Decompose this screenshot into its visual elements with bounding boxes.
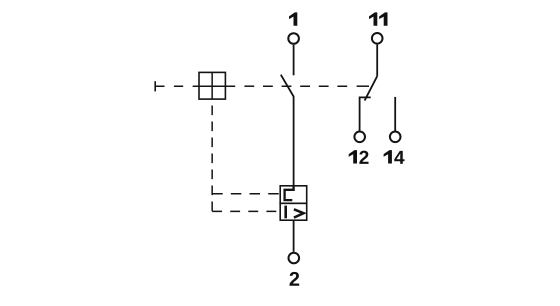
magnetic release greater-than xyxy=(294,209,304,217)
terminal 2 xyxy=(289,253,300,264)
label terminal 11 xyxy=(369,12,377,25)
wire main contact to thermal release xyxy=(293,96,295,186)
wire terminal 1 to main contact xyxy=(293,45,295,76)
aux fixed contact 12 xyxy=(360,97,371,131)
dashed linkage vertical xyxy=(211,99,213,211)
actuator tick left end xyxy=(154,81,156,91)
wire aux contact 14 xyxy=(394,97,396,131)
wire magnetic release to terminal 2 xyxy=(293,220,295,252)
dashed linkage right segment xyxy=(244,85,352,87)
terminal 14 xyxy=(390,132,401,143)
main contact blade xyxy=(281,75,294,97)
label terminal 2 xyxy=(290,272,300,286)
linkage solid segment through actuator box xyxy=(193,85,235,87)
label terminal 12 xyxy=(349,150,357,163)
aux contact blade xyxy=(365,76,378,100)
actuator box vertical center line xyxy=(211,72,213,99)
dashed linkage left segment xyxy=(155,85,193,87)
wire terminal 11 to aux contact xyxy=(376,45,378,77)
actuator box xyxy=(199,72,225,99)
dashed linkage to magnetic release xyxy=(212,210,280,212)
terminal 12 xyxy=(354,132,365,143)
label terminal 14 xyxy=(384,150,392,163)
label terminal 1 xyxy=(289,12,297,25)
magnetic release box xyxy=(280,203,307,220)
magnetic release I bar xyxy=(284,206,287,219)
thermal release box xyxy=(280,186,307,204)
dashed linkage to thermal release xyxy=(212,193,280,195)
terminal 1 xyxy=(288,33,299,44)
terminal 11 xyxy=(372,33,383,44)
dashed linkage last dash xyxy=(357,85,369,87)
thermal release bimetal hook xyxy=(285,186,294,200)
